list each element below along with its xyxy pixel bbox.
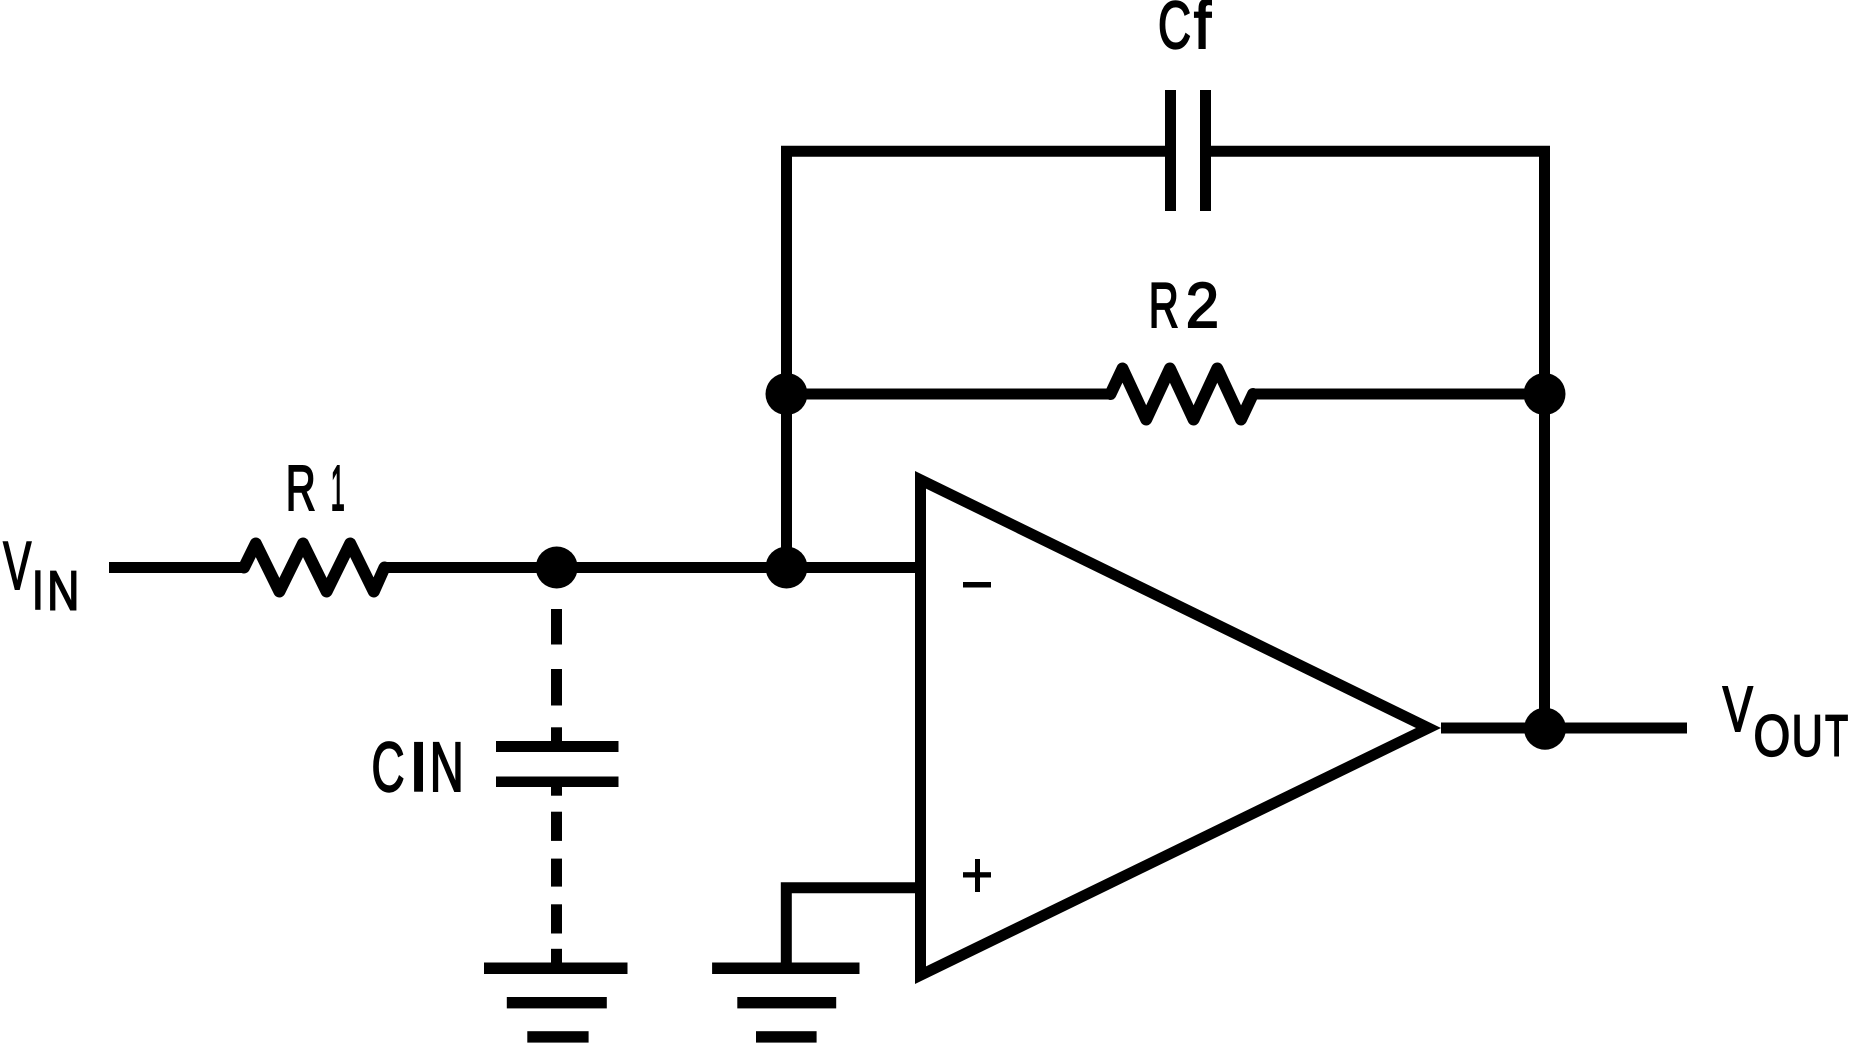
node VIN label <box>3 528 79 621</box>
resistor R2 label <box>1149 271 1219 341</box>
svg-text:O: O <box>1754 704 1791 769</box>
node VOUT label <box>1723 673 1848 769</box>
wire R2 to output node <box>1255 389 1545 400</box>
svg-text:N: N <box>47 559 79 621</box>
capacitor Cf label <box>1158 0 1211 63</box>
op-amp plus sign <box>963 859 991 892</box>
node junction dot inverting input node <box>766 547 808 589</box>
ground below CIN <box>484 963 628 1043</box>
node junction dot feedback left <box>766 373 808 415</box>
capacitor CIN label <box>372 728 464 806</box>
svg-text:2: 2 <box>1186 271 1219 341</box>
svg-text:V: V <box>3 528 31 604</box>
svg-text:T: T <box>1825 704 1848 769</box>
wire Cf right to right vertical down to output <box>1211 151 1545 729</box>
node junction dot output <box>1524 708 1566 750</box>
ground at non-inverting input <box>712 963 859 1043</box>
wire op-amp output <box>1441 723 1687 734</box>
svg-text:C: C <box>372 728 405 806</box>
wire R1 to op-amp inverting input <box>385 562 916 573</box>
svg-text:V: V <box>1723 673 1753 745</box>
capacitor CIN <box>496 741 619 787</box>
svg-text:1: 1 <box>331 452 345 524</box>
svg-text:N: N <box>430 728 464 806</box>
op-amp minus sign <box>963 582 991 588</box>
resistor R1 label <box>286 452 345 524</box>
svg-text:R: R <box>286 452 316 524</box>
wire non-inverting input to ground <box>786 888 915 963</box>
wire VIN to R1 <box>109 562 244 573</box>
wire dashed CIN to ground <box>551 787 562 963</box>
capacitor Cf <box>1165 90 1211 211</box>
node junction dot CIN node <box>536 547 578 589</box>
svg-text:f: f <box>1194 0 1211 63</box>
wire node to R2 <box>787 389 1114 400</box>
wire dashed CIN stub (above capacitor) <box>551 609 562 741</box>
node junction dot feedback right <box>1524 373 1566 415</box>
svg-text:U: U <box>1792 704 1823 769</box>
resistor R1 <box>244 544 385 592</box>
svg-text:R: R <box>1149 271 1179 341</box>
op-amp U1 <box>915 471 1441 984</box>
resistor R2 <box>1111 369 1254 420</box>
wire feedback left vertical + top horizontal to Cf <box>787 151 1166 567</box>
svg-text:C: C <box>1158 0 1191 63</box>
